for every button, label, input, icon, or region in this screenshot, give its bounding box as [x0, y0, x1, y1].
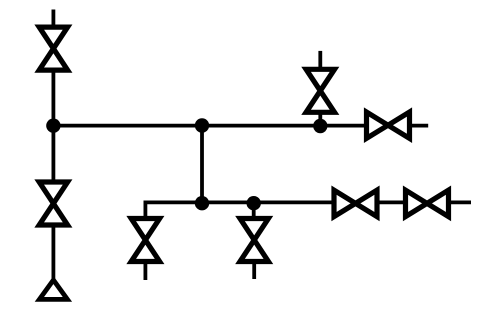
drain triangle (open, at bottom of left header) — [39, 280, 67, 299]
valve V5 (vertical, hanging from node E) — [240, 219, 268, 262]
wire W7: node A down to valve V2 — [52, 125, 56, 183]
valve V4 (vertical, hanging at lower header left end) — [131, 219, 159, 262]
valve V3 (vertical, above main header) — [306, 69, 334, 112]
node D: junction dot on lower header — [195, 196, 209, 210]
valve HV3 (horizontal, lower header) — [406, 190, 449, 216]
node C: junction dot under valve V3 — [313, 119, 327, 133]
wire W5: valve V3 to node C — [318, 111, 322, 126]
wire W2: valve V1 to node A — [52, 70, 56, 127]
wire W8: valve V2 to drain triangle — [52, 225, 56, 281]
wire W14: lower header between HV2 and HV3 — [377, 200, 406, 204]
node E: junction dot above valve V5 — [247, 196, 261, 210]
wire W1: top stub of left header — [52, 10, 56, 29]
wire W12: node E down to valve V5 — [252, 203, 256, 220]
valve V2 (vertical, left header bottom) — [39, 182, 67, 225]
valve HV2 (horizontal, lower header) — [334, 190, 377, 216]
valve HV1 (horizontal, on main header) — [367, 112, 410, 138]
wire W9: node B down to lower header — [200, 125, 204, 204]
wire W13: stub below valve V5 — [252, 261, 256, 279]
wire W4: stub above valve V3 — [318, 51, 322, 69]
wire W15: lower header right stub after HV3 — [449, 200, 472, 204]
node B: junction dot on main header — [195, 118, 209, 132]
wire W3: main header, node A to valve HV1 — [53, 124, 366, 128]
wire W10: lower header with corner down to valve V4 — [145, 202, 332, 220]
wire W6: main header right stub after HV1 — [410, 124, 429, 128]
wire W11: stub below valve V4 — [143, 261, 147, 280]
node A: junction dot on left header — [46, 119, 60, 133]
valve V1 (vertical, left header top) — [39, 27, 67, 70]
